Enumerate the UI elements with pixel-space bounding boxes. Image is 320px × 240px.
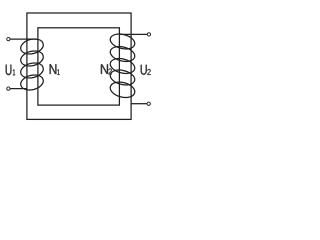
label U1 [6,65,15,76]
terminal top-left [7,37,10,40]
primary coil N1 (4 turns on left limb) [19,37,45,93]
terminal top-right [147,33,150,36]
transformer core outer outline [27,13,131,119]
terminal bottom-left [7,87,10,90]
secondary coil N2 (5 turns on right limb) [109,32,137,100]
label N1 [50,64,60,75]
wire: top-right terminal to secondary coil [119,33,147,35]
label N2 [101,64,112,74]
label U2 [141,65,151,75]
wire: bottom-left terminal to primary coil [10,88,27,90]
transformer core inner outline (window) [38,28,120,105]
wire: bottom-right terminal to secondary coil [131,103,147,105]
terminal bottom-right [147,102,150,105]
wire: top-left terminal to primary coil [10,38,38,40]
